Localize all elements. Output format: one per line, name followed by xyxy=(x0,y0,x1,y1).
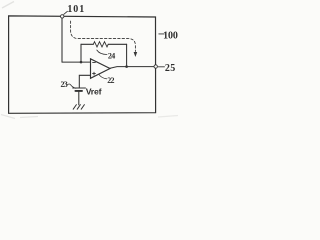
label 100 leader xyxy=(159,33,164,35)
op-amp non-inverting sign xyxy=(93,72,96,75)
svg-text:22: 22 xyxy=(107,76,114,85)
enclosure box 100 xyxy=(9,16,156,113)
wire: feedback right leg xyxy=(126,44,128,66)
svg-text:24: 24 xyxy=(108,52,115,61)
battery 23 top plate xyxy=(73,87,86,89)
svg-text:23: 23 xyxy=(61,80,68,89)
scan smudge top-left xyxy=(2,2,14,9)
wire: feedback left leg xyxy=(80,44,82,62)
wire: feedback lead right xyxy=(108,43,126,45)
dashed path arrowhead xyxy=(134,52,138,57)
junction at output xyxy=(125,65,128,68)
wire: non-inverting input step xyxy=(79,75,90,88)
label 22 leader xyxy=(99,74,107,79)
ground xyxy=(73,105,84,110)
op-amp inverting sign xyxy=(93,61,96,63)
svg-text:101: 101 xyxy=(67,4,85,15)
wire: battery to ground xyxy=(78,92,80,105)
node 101 xyxy=(61,15,64,18)
junction at inverting input xyxy=(80,61,83,64)
svg-text:Vref: Vref xyxy=(86,86,102,96)
op-amp 22 triangle xyxy=(91,59,111,79)
svg-text:100: 100 xyxy=(163,30,178,41)
dashed signal path from node 101 to output xyxy=(71,21,136,52)
node 25 on box edge xyxy=(154,65,157,68)
label 23 squiggle leader xyxy=(67,84,76,88)
wire: vertical from node 101 to inverting input xyxy=(61,18,63,62)
battery 23 bottom plate xyxy=(75,90,82,92)
wire: feedback lead left xyxy=(81,43,93,45)
wire: inverting input horizontal xyxy=(62,61,91,63)
scan smudge bottom-right xyxy=(158,116,178,118)
wire: op-amp output to node 25 xyxy=(110,67,156,69)
svg-text:25: 25 xyxy=(165,63,176,74)
label 24 leader xyxy=(97,50,107,55)
label 25 leader xyxy=(158,66,164,68)
resistor 24 zigzag xyxy=(93,42,108,47)
scan smudge bottom-left xyxy=(1,115,38,119)
label 101 leader xyxy=(64,11,68,14)
